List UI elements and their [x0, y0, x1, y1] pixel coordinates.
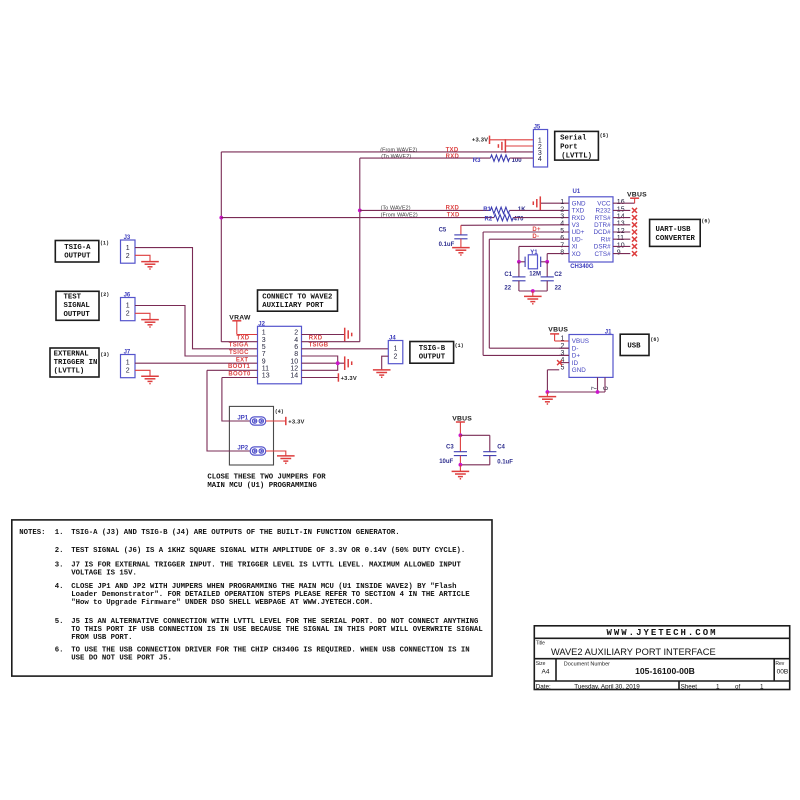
connector J4: [388, 336, 403, 364]
svg-text:5: 5: [262, 344, 266, 351]
svg-text:8: 8: [560, 250, 564, 257]
svg-text:(4): (4): [275, 409, 284, 415]
svg-text:TSIG-A (J3) AND TSIG-B (J4) AR: TSIG-A (J3) AND TSIG-B (J4) ARE OUTPUTS …: [71, 529, 399, 537]
net label TXD (From WAVE2, mid): [381, 213, 460, 219]
ground (crystal): [524, 291, 542, 304]
svg-text:7: 7: [560, 242, 564, 249]
svg-text:2: 2: [560, 206, 564, 213]
net label TXD (J2 pin 3): [236, 335, 249, 341]
svg-text:10: 10: [290, 358, 298, 365]
net label RXD (J2 pin 4): [309, 335, 323, 341]
svg-text:(2): (2): [100, 292, 109, 298]
svg-text:4: 4: [538, 156, 542, 163]
svg-text:1: 1: [716, 683, 720, 690]
capacitor C5: [439, 225, 468, 248]
svg-text:Title: Title: [536, 641, 545, 647]
wire J6 pin 1 to J2 TSIGC: [135, 306, 258, 357]
resistor R1: [483, 207, 526, 214]
ground (JP2): [266, 451, 295, 463]
svg-text:(6): (6): [701, 218, 710, 224]
svg-text:CTS#: CTS#: [594, 251, 611, 258]
svg-text:CLOSE JP1 AND JP2 WITH JUMPERS: CLOSE JP1 AND JP2 WITH JUMPERS WHEN PROG…: [71, 583, 456, 591]
title block: [534, 626, 789, 691]
svg-text:R232: R232: [596, 208, 612, 215]
wire UD+ to J1 D+: [483, 232, 569, 355]
ground (J1): [539, 392, 557, 404]
svg-text:4: 4: [560, 221, 564, 228]
svg-text:Rev: Rev: [775, 661, 784, 667]
label box TSIG-B OUTPUT: [410, 342, 464, 364]
svg-text:DCD#: DCD#: [593, 229, 611, 236]
svg-text:2: 2: [126, 311, 130, 318]
svg-text:D-: D-: [572, 345, 579, 352]
svg-text:Document Number: Document Number: [564, 661, 610, 667]
svg-text:CONVERTER: CONVERTER: [656, 235, 696, 243]
resistor R3: [473, 155, 522, 164]
jumper JP1: [237, 416, 265, 426]
wire UD- to J1 D-: [489, 239, 569, 348]
power VBUS (U1 pin 16): [613, 191, 647, 203]
connector J1: [559, 330, 613, 391]
svg-text:WWW.JYETECH.COM: WWW.JYETECH.COM: [606, 628, 717, 638]
svg-text:2: 2: [294, 330, 298, 337]
connector J3: [121, 235, 136, 263]
svg-text:Tuesday, April 30, 2019: Tuesday, April 30, 2019: [574, 683, 640, 690]
label box EXTERNAL TRIGGER IN (LVTTL): [50, 348, 109, 377]
svg-text:1: 1: [560, 336, 564, 343]
svg-text:RXD: RXD: [446, 154, 460, 160]
svg-text:3: 3: [262, 337, 266, 344]
svg-text:GND: GND: [572, 367, 586, 374]
svg-text:EXT: EXT: [236, 357, 249, 363]
svg-text:16: 16: [617, 199, 625, 206]
junction TXD branch: [219, 216, 223, 220]
wire R2 to U1 pin 3: [513, 217, 569, 219]
wire RXD left segment: [360, 157, 491, 159]
label box USB: [620, 334, 659, 355]
svg-text:3.: 3.: [55, 562, 64, 570]
svg-text:00B: 00B: [777, 668, 789, 675]
capacitor C4: [483, 435, 513, 465]
wire R1 to U1 pin 2: [510, 209, 570, 211]
svg-text:TXD: TXD: [446, 148, 459, 154]
svg-text:TXD: TXD: [572, 208, 585, 215]
wire TXD to J5 pin 3: [221, 151, 533, 153]
svg-text:CH340G: CH340G: [570, 264, 594, 270]
svg-text:8: 8: [294, 351, 298, 358]
junction caps bottom: [459, 463, 463, 467]
svg-text:Port: Port: [560, 144, 578, 152]
svg-text:(LVTTL): (LVTTL): [54, 368, 85, 376]
svg-text:CLOSE THESE TWO JUMPERS FOR: CLOSE THESE TWO JUMPERS FOR: [207, 474, 326, 482]
svg-text:OUTPUT: OUTPUT: [64, 253, 91, 261]
net label EXT (J2 pin 9): [236, 357, 249, 363]
svg-text:R1: R1: [483, 207, 491, 213]
svg-text:BOOT0: BOOT0: [228, 372, 251, 378]
svg-text:D+: D+: [572, 353, 581, 360]
svg-text:J5 IS AN ALTERNATIVE CONNECTIO: J5 IS AN ALTERNATIVE CONNECTION WITH LVT…: [71, 618, 479, 626]
svg-text:10: 10: [617, 242, 625, 249]
svg-text:V3: V3: [572, 222, 580, 229]
svg-text:VOLTAGE IS 15V.: VOLTAGE IS 15V.: [71, 570, 137, 578]
svg-text:of: of: [735, 683, 741, 690]
net label TSIGB (J2 pin 6): [309, 342, 329, 348]
svg-text:22: 22: [555, 285, 562, 291]
svg-text:JP1: JP1: [237, 416, 248, 422]
svg-text:NOTES:: NOTES:: [19, 529, 45, 537]
capacitor C3: [439, 435, 467, 465]
net label TSIGA (J2 pin 5): [229, 342, 249, 348]
svg-text:100: 100: [512, 158, 523, 164]
svg-text:RTS#: RTS#: [595, 215, 611, 222]
svg-text:105-16100-00B: 105-16100-00B: [635, 666, 695, 676]
ground (J7 pin 2): [135, 370, 159, 383]
svg-text:12M: 12M: [529, 271, 541, 277]
svg-text:+3.3V: +3.3V: [341, 376, 357, 382]
wire J1 shield pins to ground rail: [547, 377, 605, 392]
wire TSIGB J2 pin 6 to J4: [302, 348, 389, 350]
junction crystal right: [545, 260, 549, 264]
junction crystal left: [517, 260, 521, 264]
crystal Y1: [519, 250, 547, 277]
svg-text:(6): (6): [650, 337, 659, 343]
svg-text:9: 9: [617, 250, 621, 257]
svg-text:VBUS: VBUS: [548, 327, 568, 334]
svg-text:(1): (1): [455, 343, 464, 349]
svg-text:(From WAVE2): (From WAVE2): [380, 148, 417, 154]
svg-text:UD-: UD-: [572, 236, 583, 243]
wire J2 pin 13 BOOT0 to JP1: [222, 378, 258, 422]
svg-text:(1): (1): [100, 241, 109, 247]
wire caps bottom rail: [460, 464, 489, 466]
svg-text:14: 14: [617, 214, 625, 221]
wire TXD to R2: [221, 217, 494, 219]
U1 right pin stubs (9-15): [613, 210, 630, 253]
power VBUS (J1 pin 1): [548, 327, 569, 341]
svg-text:SIGNAL: SIGNAL: [64, 302, 90, 310]
power VBUS (C3 C4): [452, 416, 472, 436]
wire J2 pin 12 to ground rail: [302, 363, 338, 370]
net label D-: [532, 234, 539, 240]
ground (J4 pin 2): [373, 356, 391, 377]
connector J7: [121, 350, 136, 378]
svg-text:CONNECT TO WAVE2: CONNECT TO WAVE2: [262, 293, 332, 301]
svg-text:XO: XO: [572, 251, 581, 258]
junction RXD branch: [358, 209, 362, 213]
wire J2 pin 8 to ground rail: [302, 356, 338, 363]
svg-text:VBUS: VBUS: [627, 191, 647, 198]
svg-text:Serial: Serial: [560, 135, 587, 143]
svg-text:MAIN MCU (U1) PROGRAMMING: MAIN MCU (U1) PROGRAMMING: [207, 482, 317, 490]
svg-text:+3.3V: +3.3V: [288, 419, 304, 425]
ground (J3 pin 2): [135, 255, 159, 269]
no-connect X pins 9-15: [632, 208, 637, 256]
junction VBUS caps top: [459, 433, 463, 437]
svg-text:XI: XI: [572, 244, 578, 251]
svg-text:1: 1: [126, 360, 130, 367]
svg-text:WAVE2 AUXILIARY PORT INTERFACE: WAVE2 AUXILIARY PORT INTERFACE: [551, 647, 716, 657]
svg-text:Size: Size: [536, 661, 546, 667]
svg-text:Sheet: Sheet: [681, 683, 698, 690]
svg-text:USB: USB: [627, 343, 641, 351]
svg-text:TO USE THE USB CONNECTION DRIV: TO USE THE USB CONNECTION DRIVER FOR THE…: [71, 647, 469, 655]
svg-text:RI#: RI#: [601, 236, 611, 243]
svg-text:15: 15: [617, 206, 625, 213]
net label TXD (From WAVE2, top): [380, 148, 459, 154]
svg-text:UD+: UD+: [572, 229, 585, 236]
svg-text:+3.3V: +3.3V: [472, 138, 488, 144]
no-connect X (J1 pin 4 ID): [557, 360, 562, 365]
ground (J2 pin 2): [302, 328, 352, 342]
wire U1 pin 4 (V3) to C5: [461, 224, 569, 227]
svg-text:14: 14: [290, 373, 298, 380]
svg-text:TEST: TEST: [64, 294, 82, 302]
svg-text:TSIGC: TSIGC: [229, 350, 249, 356]
jumper area box: [229, 406, 273, 465]
svg-text:6: 6: [560, 235, 564, 242]
wire RXD vertical: [359, 158, 361, 342]
svg-text:VBUS: VBUS: [572, 338, 589, 345]
svg-text:13: 13: [617, 221, 625, 228]
svg-text:R2: R2: [485, 217, 493, 223]
label box TSIG-A OUTPUT: [55, 241, 109, 263]
svg-text:(LVTTL): (LVTTL): [561, 152, 592, 160]
svg-text:U1: U1: [573, 189, 581, 195]
label box CONNECT TO WAVE2 AUXILIARY PORT: [258, 290, 338, 311]
svg-text:2: 2: [126, 253, 130, 260]
resistor R2: [485, 214, 525, 222]
wire RXD to R1: [360, 209, 491, 211]
wire J2 pin 10 to ground: [302, 362, 345, 364]
svg-text:Date:: Date:: [536, 683, 551, 690]
notes box: [12, 520, 492, 676]
svg-text:OUTPUT: OUTPUT: [64, 311, 91, 319]
label box UART-USB CONVERTER: [650, 218, 711, 246]
IC U1 CH340G: [560, 189, 624, 270]
junction J2 ground rail: [336, 361, 340, 365]
wire J1 pin 5 GND down: [547, 370, 559, 392]
svg-text:22: 22: [504, 285, 511, 291]
svg-text:C5: C5: [439, 227, 447, 233]
svg-text:TSIGB: TSIGB: [309, 342, 329, 348]
svg-text:1.: 1.: [55, 529, 64, 537]
wire caps top rail: [460, 434, 489, 436]
net label BOOT1 (J2 pin 11): [228, 364, 251, 370]
caption close jumpers: [207, 474, 326, 490]
svg-text:USE DO NOT USE PORT J5.: USE DO NOT USE PORT J5.: [71, 655, 172, 663]
svg-text:2.: 2.: [55, 547, 64, 555]
junction crystal ground: [531, 289, 535, 293]
power +3.3V (JP1): [266, 417, 305, 426]
ground (J5 pin 2): [498, 139, 533, 153]
capacitor C1: [504, 262, 525, 292]
svg-text:J7 IS FOR EXTERNAL TRIGGER INP: J7 IS FOR EXTERNAL TRIGGER INPUT. THE TR…: [71, 562, 461, 570]
capacitor C2: [541, 262, 563, 292]
svg-text:GND: GND: [572, 200, 586, 207]
svg-text:AUXILIARY PORT: AUXILIARY PORT: [262, 302, 324, 310]
svg-text:0.1uF: 0.1uF: [497, 460, 513, 466]
svg-text:6: 6: [294, 344, 298, 351]
connector J2: [258, 321, 302, 383]
svg-text:9: 9: [262, 358, 266, 365]
svg-text:11: 11: [262, 366, 269, 373]
svg-text:C1: C1: [504, 272, 512, 278]
power +3.3V (serial port): [472, 136, 534, 144]
svg-text:TXD: TXD: [236, 335, 249, 341]
svg-text:1: 1: [760, 683, 764, 690]
wire J2 pin 11 BOOT1 to JP2: [207, 370, 258, 451]
svg-text:C3: C3: [446, 445, 454, 451]
wire J7 pin 1 to J2 EXT: [135, 362, 258, 364]
svg-text:TSIG-A: TSIG-A: [64, 244, 91, 252]
svg-text:(To WAVE2): (To WAVE2): [381, 154, 411, 160]
svg-text:RXD: RXD: [572, 215, 586, 222]
ground (C3 C4): [452, 465, 470, 479]
net label RXD (To WAVE2, mid): [381, 205, 460, 211]
svg-text:3: 3: [560, 350, 564, 357]
wire U1 pin 8 (XO) to crystal: [547, 254, 569, 262]
svg-text:1: 1: [262, 330, 266, 337]
connector J6: [121, 293, 136, 321]
net label TSIGC (J2 pin 7): [229, 350, 249, 356]
svg-text:EXTERNAL: EXTERNAL: [54, 350, 89, 358]
svg-text:R3: R3: [473, 158, 481, 164]
svg-text:13: 13: [262, 373, 270, 380]
svg-text:4: 4: [294, 337, 298, 344]
connector J5: [533, 125, 547, 167]
svg-text:1: 1: [560, 199, 564, 206]
label (4): [275, 409, 284, 415]
svg-text:12: 12: [290, 366, 298, 373]
svg-text:FROM USB PORT.: FROM USB PORT.: [71, 634, 132, 642]
svg-text:(5): (5): [600, 133, 609, 139]
svg-text:1: 1: [394, 346, 398, 353]
svg-text:DTR#: DTR#: [594, 222, 611, 229]
wire U1 pin 7 (XI) to crystal: [519, 246, 569, 261]
svg-text:A4: A4: [542, 668, 550, 675]
svg-text:OUTPUT: OUTPUT: [419, 353, 446, 361]
svg-text:RXD: RXD: [309, 335, 323, 341]
junction J1 shield pin 7: [596, 390, 600, 394]
svg-text:6.: 6.: [55, 647, 64, 655]
svg-text:TRIGGER IN: TRIGGER IN: [54, 359, 98, 367]
wire crystal caps ground rail: [519, 290, 547, 292]
svg-text:5.: 5.: [55, 618, 64, 626]
svg-text:11: 11: [617, 235, 624, 242]
svg-text:ID: ID: [572, 360, 579, 367]
wire TXD to J2 pin 3: [221, 341, 257, 343]
svg-text:TEST SIGNAL (J6) IS A 1KHZ SQU: TEST SIGNAL (J6) IS A 1KHZ SQUARE SIGNAL…: [71, 547, 465, 555]
ground (U1 pin 1): [533, 196, 569, 210]
svg-text:1K: 1K: [518, 207, 526, 213]
svg-text:1: 1: [126, 303, 130, 310]
svg-text:DSR#: DSR#: [594, 244, 611, 251]
svg-text:VCC: VCC: [597, 200, 611, 207]
svg-text:7: 7: [262, 351, 266, 358]
junction J1 ground left: [546, 390, 550, 394]
svg-text:TO THIS PORT IF USB CONNECTION: TO THIS PORT IF USB CONNECTION IS IN USE…: [71, 626, 483, 634]
svg-text:5: 5: [560, 228, 564, 235]
svg-text:4.: 4.: [55, 583, 64, 591]
ground (C5): [452, 248, 470, 255]
svg-text:3: 3: [560, 214, 564, 221]
svg-text:"How to Upgrade Firmware" UNDE: "How to Upgrade Firmware" UNDER DSO SHEL…: [71, 599, 373, 607]
svg-text:12: 12: [617, 228, 625, 235]
svg-text:2: 2: [126, 368, 130, 375]
svg-text:TSIG-B: TSIG-B: [419, 345, 446, 353]
svg-text:C2: C2: [554, 272, 562, 278]
label box Serial Port (LVTTL): [555, 131, 609, 160]
ground (J6 pin 2): [135, 313, 159, 327]
power VRAW (J2 pin 1): [229, 314, 257, 334]
svg-text:Loader Demonstrator". FOR DETA: Loader Demonstrator". FOR DETAILED OPERA…: [71, 591, 470, 599]
wire TXD vertical: [220, 152, 222, 342]
wire R3 to J5 pin 4: [510, 157, 534, 159]
svg-text:(3): (3): [100, 352, 109, 358]
jumper JP2: [237, 446, 265, 456]
svg-text:1: 1: [126, 245, 130, 252]
svg-text:BOOT1: BOOT1: [228, 364, 251, 370]
net label RXD (To WAVE2, top): [381, 154, 459, 160]
wire J3 pin 1 to J2 TSIGA: [135, 248, 258, 349]
svg-text:10uF: 10uF: [439, 459, 453, 465]
net label D+: [532, 227, 541, 233]
net label BOOT0 (J2 pin 13): [228, 372, 251, 378]
svg-text:2: 2: [394, 354, 398, 361]
svg-text:TSIGA: TSIGA: [229, 342, 249, 348]
svg-text:6: 6: [603, 386, 610, 390]
power +3.3V (J2 pin 14): [302, 373, 357, 382]
label box TEST SIGNAL OUTPUT: [56, 291, 109, 320]
svg-text:UART-USB: UART-USB: [656, 226, 692, 234]
svg-text:JP2: JP2: [237, 446, 248, 452]
ground (J2 pin 10): [345, 356, 352, 370]
svg-text:5: 5: [560, 364, 564, 371]
svg-text:C4: C4: [497, 445, 505, 451]
wire RXD to J2 pin 4: [302, 341, 360, 343]
